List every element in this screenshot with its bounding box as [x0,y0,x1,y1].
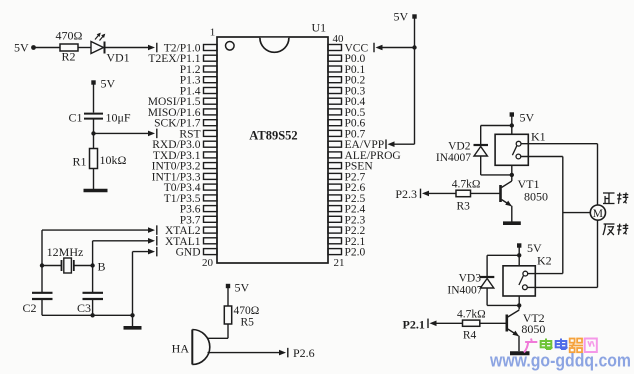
svg-text:5V: 5V [235,281,250,295]
wire to VCC pin [374,43,415,53]
svg-text:C2: C2 [22,301,36,315]
relay K1 [495,130,546,166]
wire bottom bus [42,314,133,316]
junction C3 bottom [90,313,94,317]
capacitor C2 [22,266,52,316]
svg-text:5V: 5V [394,10,409,24]
svg-text:VD2: VD2 [448,141,471,153]
node B [90,260,105,274]
resistor R3 4.7k [452,179,481,213]
svg-text:HA: HA [172,342,190,356]
watermark url [489,351,631,371]
wire 5V to R5 [227,288,229,306]
pin number 21 [334,257,345,269]
IC pin-1 marker [226,42,235,51]
svg-text:R2: R2 [61,50,75,64]
wire R5 to HA [207,324,228,338]
svg-text:VD3: VD3 [459,273,482,285]
crystal 12MHz [42,245,93,273]
wire XTAL2 [42,225,157,265]
junction VD3 cathode [517,253,521,257]
resistor R4 4.7k [457,309,486,342]
ground (crystal) [124,326,142,330]
IC left pin labels [148,43,201,259]
svg-text:4.7kΩ: 4.7kΩ [457,309,486,321]
wire to VD3 cathode [487,255,519,276]
IC U1 AT89S52 body [217,37,328,263]
svg-text:AT89S52: AT89S52 [249,129,297,143]
wire P2.1 to R4 [428,319,463,329]
junction VD2 anode [510,173,514,177]
svg-text:VD1: VD1 [106,51,129,65]
wire base VT2 [480,322,507,324]
svg-text:P2.6: P2.6 [293,346,315,360]
wire base VT1 [471,192,501,194]
svg-text:1: 1 [210,27,216,39]
watermark site name [524,339,597,353]
label fanzhuan (reverse) [603,224,628,236]
label P2.3 [395,187,417,201]
junction VD2 cathode [510,123,514,127]
wire R2 to VD1 [78,47,91,49]
label P2.1 [403,318,425,332]
IC notch [260,38,289,53]
diode VD3 IN4007 [447,273,494,297]
svg-text:10kΩ: 10kΩ [100,153,127,167]
power terminal 5V (HA) [226,281,250,295]
svg-text:C1: C1 [68,111,82,125]
label AT89S52 [249,129,297,143]
svg-text:12MHz: 12MHz [47,245,84,259]
svg-text:8050: 8050 [521,322,545,336]
motor M [590,205,605,220]
wire inner bus to motor [563,212,591,214]
svg-text:P2.0: P2.0 [345,247,366,259]
transistor VT2 8050 [507,310,546,336]
label P2.6 [293,346,315,360]
label zhengzhuan (forward) [603,193,628,204]
svg-text:R4: R4 [463,330,477,342]
junction VCC [412,45,416,49]
node left of crystal [40,263,44,267]
svg-text:8050: 8050 [524,190,548,204]
capacitor C1 10uF [68,111,130,125]
junction VD3 anode [517,303,521,307]
svg-text:IN4007: IN4007 [436,152,471,164]
svg-text:5V: 5V [14,41,29,55]
transistor VT1 8050 [501,177,549,206]
svg-text:U1: U1 [312,21,327,35]
label U1 [312,21,327,35]
svg-text:P2.3: P2.3 [395,187,417,201]
svg-text:R3: R3 [457,201,471,213]
wire K1 contact bottom to inner bus [521,157,563,274]
svg-text:K2: K2 [537,254,552,268]
power terminal 5V top-right [394,10,417,24]
pin number 20 [202,257,214,269]
resistor R2 470R [56,29,83,64]
svg-text:P2.1: P2.1 [403,318,425,332]
IC right pin labels [345,43,401,259]
wire VD3 anode [487,288,519,305]
svg-text:C3: C3 [77,301,91,315]
wire VD2 anode [481,156,512,175]
svg-text:B: B [98,260,106,274]
ground (VT1) [503,221,521,225]
junction node RST [91,131,95,135]
power terminal 5V top-left [14,41,36,55]
svg-text:GND: GND [176,247,201,259]
svg-text:470Ω: 470Ω [234,305,260,317]
wire to EA/VPP pin [386,139,415,149]
svg-text:R5: R5 [241,317,255,329]
wire 5V to C1 [93,85,95,113]
wire 5V to K1 [511,117,513,135]
svg-text:5V: 5V [101,77,116,91]
svg-text:4.7kΩ: 4.7kΩ [452,179,481,191]
wire XTAL1 [93,236,157,265]
wire 5V down [414,19,416,145]
svg-text:470Ω: 470Ω [56,29,83,43]
wire node to RST pin [94,129,157,139]
ground (R1) [84,189,108,193]
wire C1 to node [93,119,95,134]
wire K1 contact top to motor bus [521,144,598,205]
wire K2 coil to VT2 [518,296,520,310]
wire K2 contact bottom to motor bus [527,286,597,288]
svg-text:5V: 5V [520,111,535,125]
LED VD1 [91,33,130,65]
wire motor to K2 contact bottom [597,220,599,287]
pin number 1 [210,27,216,39]
junction ground bus [130,313,134,317]
svg-text:R1: R1 [72,155,86,169]
pin number 40 [333,33,345,45]
svg-text:20: 20 [202,257,214,269]
wire 5V to K2 [518,248,520,266]
svg-text:K1: K1 [531,130,546,144]
power terminal 5V (K1) [510,111,535,125]
wire R1 to ground [93,169,95,190]
wire 5V to R2 [34,47,61,49]
wire HA to P2.6 [208,348,288,358]
wire P2.3 to R3 [421,189,457,199]
svg-text:IN4007: IN4007 [447,285,482,297]
svg-text:40: 40 [333,33,345,45]
ground (VT2) [510,351,530,355]
power terminal 5V (C1 branch) [91,77,115,91]
sounder HA [172,330,210,365]
wire K2 contact top to inner bus [528,273,563,275]
wire VT2 emitter to ground [518,336,520,351]
wire K1 coil to VT1 [511,165,513,181]
svg-text:www.go-gddq.com: www.go-gddq.com [489,351,631,371]
wire to VD2 cathode [481,126,512,145]
svg-text:10μF: 10μF [106,111,131,125]
IC right pins [328,45,342,255]
svg-text:M: M [593,208,603,220]
diode VD2 IN4007 [436,141,488,165]
svg-text:21: 21 [334,257,345,269]
relay K2 [503,254,552,297]
capacitor C3 [77,266,103,316]
resistor R1 10k [72,149,126,169]
wire VT1 emitter to ground [511,206,513,222]
wire GND pin [133,247,157,327]
resistor R5 470R [224,305,259,329]
wire node to R1 [93,133,95,148]
wire VD1 to pin T2/P1.0 [105,43,157,53]
power terminal 5V (K2) [517,241,542,255]
IC left pins [204,45,218,255]
